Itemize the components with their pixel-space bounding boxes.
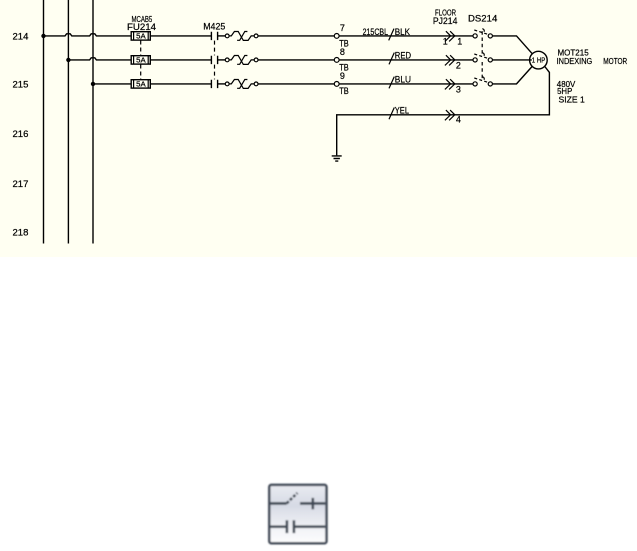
svg-text:DS214: DS214	[468, 14, 497, 24]
svg-text:2: 2	[456, 61, 461, 71]
svg-text:3: 3	[456, 84, 461, 94]
svg-text:5A: 5A	[136, 80, 146, 89]
svg-text:SIZE 1: SIZE 1	[559, 95, 586, 105]
svg-text:TB: TB	[339, 38, 349, 48]
svg-text:215: 215	[13, 79, 29, 89]
svg-text:216: 216	[13, 129, 29, 139]
svg-text:PJ214: PJ214	[433, 16, 458, 26]
svg-text:TB: TB	[339, 62, 349, 72]
svg-text:7: 7	[340, 23, 345, 33]
svg-text:RED: RED	[395, 51, 412, 61]
svg-text:1: 1	[457, 37, 462, 47]
svg-text:5A: 5A	[136, 32, 146, 41]
svg-text:YEL: YEL	[395, 105, 409, 115]
svg-text:214: 214	[13, 31, 29, 41]
svg-text:1: 1	[443, 37, 448, 47]
svg-text:BLU: BLU	[395, 75, 411, 85]
svg-text:INDEXING: INDEXING	[557, 56, 593, 66]
svg-text:4: 4	[456, 115, 461, 125]
svg-text:M425: M425	[203, 22, 225, 32]
svg-text:217: 217	[13, 179, 29, 189]
svg-text:215CBL: 215CBL	[363, 27, 388, 37]
svg-text:TB: TB	[339, 86, 349, 96]
svg-text:8: 8	[340, 47, 345, 57]
svg-text:5A: 5A	[136, 56, 146, 65]
svg-text:1 HP: 1 HP	[532, 58, 546, 65]
svg-text:FU214: FU214	[127, 22, 156, 32]
svg-text:218: 218	[13, 227, 29, 237]
svg-text:BLK: BLK	[395, 27, 410, 37]
svg-text:9: 9	[340, 71, 345, 81]
svg-text:MOTOR: MOTOR	[603, 56, 627, 66]
